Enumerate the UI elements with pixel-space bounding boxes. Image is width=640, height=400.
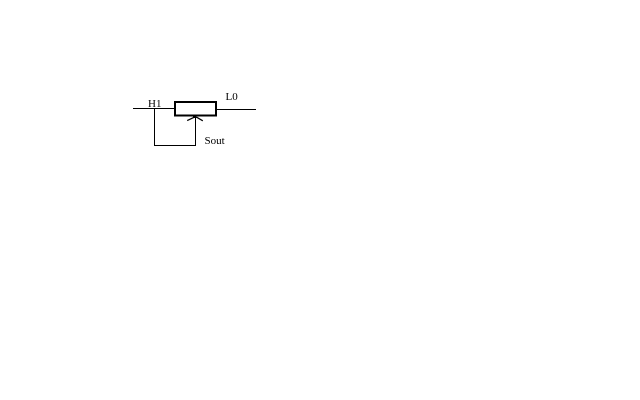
svg-text:L0: L0 — [226, 91, 239, 103]
potentiometer body — [175, 102, 216, 116]
wiper arrow — [187, 116, 203, 121]
svg-text:Sout: Sout — [205, 135, 225, 147]
wire right terminal — [217, 109, 256, 111]
wire wiper vertical — [195, 117, 197, 146]
wire left terminal — [133, 108, 174, 110]
wire junction down from H1 node — [154, 108, 156, 145]
wire bottom horizontal — [154, 145, 196, 147]
